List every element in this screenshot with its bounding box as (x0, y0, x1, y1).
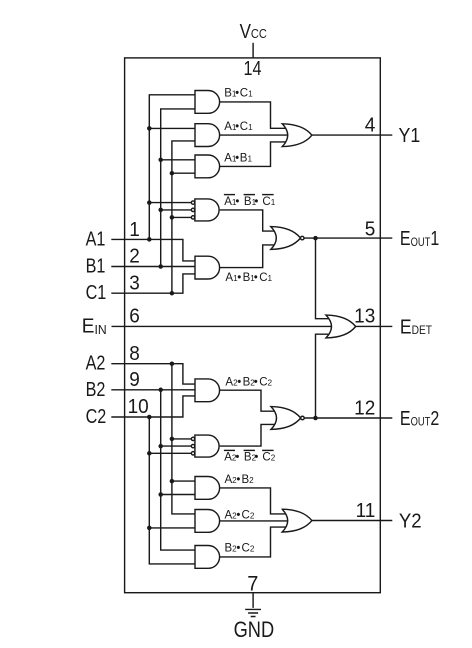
wire branch A1 bus to inverting AND U4 top input (149, 202, 191, 204)
AND gate U5 (A1&#183;B1&#183;C1) (195, 256, 220, 279)
svg-text:EIN: EIN (82, 315, 107, 338)
AND gate U10 (inverted inputs, A2bar&#183;B2bar&#183;C2bar) (195, 435, 219, 457)
svg-text:Y1: Y1 (399, 125, 421, 147)
OR gate U8 (EDET) (326, 315, 356, 338)
svg-text:VCC: VCC (240, 19, 268, 42)
junction B2 line / B2 bus (158, 388, 163, 393)
svg-text:A2: A2 (86, 352, 106, 374)
svg-text:EDET: EDET (400, 316, 432, 338)
junction EOUT1 node tap (313, 236, 318, 241)
NOR gate U14 (EOUT2) (271, 407, 301, 430)
wire AND U11 output to OR U15 top input (220, 488, 287, 514)
wire branch A2 bus to inverting AND U10 top input (172, 438, 192, 440)
wire AND U3 output to OR U6 bottom input (220, 142, 287, 167)
wire inverting AND U4 output to NOR U7 top input (220, 210, 275, 231)
junction EOUT2 node tap (313, 416, 318, 421)
wire AND U12 output to OR U15 middle input (220, 520, 287, 522)
wire EOUT2 output (pin 12) (304, 417, 392, 419)
svg-text:GND: GND (234, 619, 275, 643)
IC boundary box (125, 58, 381, 593)
svg-text:8: 8 (129, 343, 140, 366)
junction B1 bus / U4 input (158, 208, 163, 213)
svg-text:B1: B1 (86, 255, 106, 277)
wire AND U13 output to OR U15 bottom input (220, 527, 287, 557)
svg-text:7: 7 (247, 572, 258, 596)
AND gate U12 (A2&#183;C2) (195, 510, 220, 533)
svg-text:C1: C1 (86, 282, 107, 304)
svg-text:2: 2 (129, 245, 140, 268)
wire branch B2 bus to AND U11 bottom input (161, 494, 196, 496)
junction C1 bus / U4 input (170, 215, 175, 220)
junction B2 bus / U11 input (158, 492, 163, 497)
svg-text:5: 5 (365, 218, 376, 241)
junction C2 line / C2 bus (147, 415, 152, 420)
svg-text:A2•B2•C2: A2•B2•C2 (225, 376, 272, 388)
wire AND U9 output to NOR U14 top input (220, 390, 276, 411)
junction A2 bus / U10 input (170, 437, 175, 442)
input bubbles of U10 (191, 437, 194, 440)
svg-text:A2•B2: A2•B2 (225, 474, 255, 486)
AND gate U4 (inverted inputs, A1bar&#183;B1bar&#183;C1bar) (195, 199, 219, 221)
svg-text:A1•B1•C1: A1•B1•C1 (225, 272, 272, 284)
svg-text:C2: C2 (86, 405, 107, 427)
AND gate U3 (A1&#183;B1) (195, 155, 220, 178)
wire C2 input (pin 10) routed to AND U9 bottom input (111, 396, 196, 417)
svg-text:13: 13 (354, 305, 375, 328)
svg-text:A1: A1 (86, 228, 106, 250)
svg-text:B2•C2: B2•C2 (225, 542, 255, 554)
svg-text:A2•B2•C2: A2•B2•C2 (224, 451, 276, 463)
input bubbles of U4 (191, 201, 194, 204)
wire AND U1 output to OR U6 top input (220, 102, 287, 128)
wire B1 input (pin 2) straight into AND U5 middle input (111, 266, 196, 268)
svg-text:EOUT2: EOUT2 (400, 407, 439, 429)
svg-text:A2•C2: A2•C2 (225, 510, 255, 522)
wire A2 input (pin 8) routed to AND U9 top input (111, 364, 196, 384)
svg-text:3: 3 (129, 272, 140, 295)
AND gate U9 (A2&#183;B2&#183;C2) (195, 379, 220, 402)
wire branch B2 bus to inverting AND U10 middle input (161, 445, 192, 447)
wire branch C1 bus to inverting AND U4 bottom input (172, 216, 192, 218)
svg-text:Y2: Y2 (399, 511, 422, 533)
output bubble of U7 (301, 236, 305, 240)
AND gate U2 (A1&#183;C1) (195, 124, 220, 147)
junction B2 bus / U10 input (158, 444, 163, 449)
wire inverting AND U10 output to NOR U14 bottom input (220, 424, 276, 446)
wire branch C2 bus to inverting AND U10 bottom input (149, 452, 191, 454)
AND gate U1 (B1&#183;C1) (195, 91, 220, 114)
wire EIN input (pin 6) to OR U8 (112, 325, 332, 327)
wire Y2 output (pin 11) (312, 520, 392, 522)
output bubble of U14 (301, 416, 305, 420)
wire Y1 output (pin 4) (312, 134, 392, 136)
wire branch B1 bus to AND U3 top input (161, 159, 196, 161)
svg-text:10: 10 (128, 396, 149, 419)
junction A1 bus / U2 input (147, 126, 152, 131)
NOR gate U7 (EOUT1) (271, 227, 301, 250)
junction B1 bus / U3 input (158, 158, 163, 163)
AND gate U11 (A2&#183;B2) (195, 477, 220, 500)
wire A1 input (pin 1) routed to AND U5 top input (111, 239, 196, 261)
svg-text:6: 6 (129, 305, 140, 328)
wire AND U5 output to NOR U7 bottom input (220, 245, 275, 268)
svg-text:11: 11 (356, 500, 376, 523)
svg-text:4: 4 (365, 114, 376, 137)
wire B2 bus down to AND U13 top input (161, 390, 196, 550)
wire branch A1 bus to AND U2 top input (149, 127, 196, 129)
wire C1 bus up to AND U2 bottom input (172, 141, 196, 293)
junction C1 bus / U3 input (170, 171, 175, 176)
wire EOUT1 tap down to OR U8 top input (316, 238, 331, 319)
svg-text:B2: B2 (86, 378, 106, 400)
wire VCC pin stub (252, 43, 254, 58)
wire A1 bus up to AND U1 top input (149, 95, 196, 240)
wire EOUT2 tap up to OR U8 bottom input (316, 334, 331, 418)
wire A2 bus down to AND U12 top input (172, 364, 196, 514)
wire EDET output (pin 13) (355, 325, 393, 327)
AND gate U13 (B2&#183;C2) (195, 546, 220, 569)
wire branch C2 bus to AND U12 bottom input (149, 527, 196, 529)
wire B2 input (pin 9) straight into AND U9 middle input (111, 389, 196, 391)
junction A1 line / A1 bus (147, 237, 152, 242)
svg-text:9: 9 (129, 369, 140, 392)
wire B1 bus up to AND U1 bottom input (161, 109, 196, 267)
junction A2 line / A2 bus (170, 361, 175, 366)
junction C2 bus / U10 input (147, 451, 152, 456)
svg-text:14: 14 (244, 57, 262, 79)
wire branch A2 bus to AND U11 top input (172, 480, 196, 482)
junction C2 bus / U12 input (147, 526, 152, 531)
svg-text:A1•B1•C1: A1•B1•C1 (224, 196, 276, 208)
wire AND U2 output to OR U6 middle input (220, 134, 287, 136)
wire C2 bus down to AND U13 bottom input (149, 417, 196, 564)
wire GND pin stub (252, 593, 254, 608)
svg-text:B1•C1: B1•C1 (224, 88, 253, 100)
junction C1 line / C1 bus (170, 291, 175, 296)
wire EOUT1 output (pin 5) (304, 237, 393, 239)
OR gate U6 (Y1) (282, 124, 312, 147)
svg-text:A1•B1: A1•B1 (224, 152, 252, 164)
wire branch C1 bus to AND U3 bottom input (172, 172, 196, 174)
svg-text:A1•C1: A1•C1 (224, 121, 253, 133)
wire branch B1 bus to inverting AND U4 middle input (161, 209, 192, 211)
svg-text:1: 1 (129, 219, 140, 242)
OR gate U15 (Y2) (282, 509, 312, 532)
svg-text:12: 12 (354, 397, 375, 420)
junction A1 bus / U4 input (147, 200, 152, 205)
ground symbol (245, 609, 261, 616)
wire C1 input (pin 3) routed to AND U5 bottom input (111, 274, 196, 293)
svg-text:EOUT1: EOUT1 (400, 228, 439, 250)
junction A2 bus / U11 input (170, 479, 175, 484)
junction B1 line / B1 bus (158, 264, 163, 269)
